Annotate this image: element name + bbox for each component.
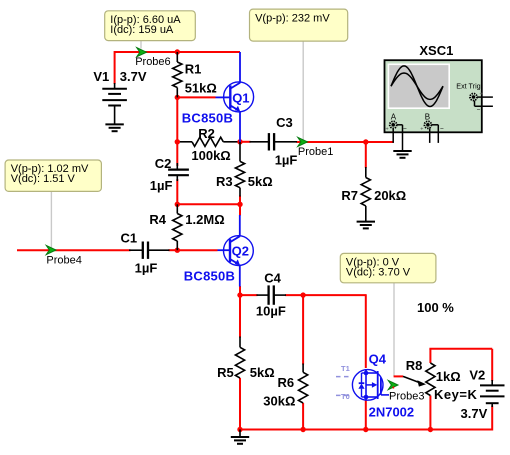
svg-text:C3: C3: [276, 115, 293, 130]
svg-text:R4: R4: [149, 212, 166, 227]
wire R5 bottom: [239, 378, 241, 430]
wire C1 to base node Q2: [168, 249, 177, 251]
svg-text:BC850B: BC850B: [184, 269, 235, 284]
wire R1 bottom to base node: [176, 97, 178, 166]
svg-text:I(dc): 159 uA: I(dc): 159 uA: [110, 24, 174, 36]
svg-text:2N7002: 2N7002: [369, 405, 415, 420]
resistor R6: [299, 364, 308, 404]
svg-text:30kΩ: 30kΩ: [263, 394, 295, 409]
junction node at 177.3,204.3: [175, 202, 180, 207]
ground below R7: [357, 222, 375, 229]
svg-text:C2: C2: [155, 156, 172, 171]
svg-text:1µF: 1µF: [135, 260, 158, 275]
svg-text:R7: R7: [341, 188, 358, 203]
svg-text:100 %: 100 %: [417, 300, 454, 315]
wire C4 left: [240, 294, 258, 296]
wire output C3 to scope: [297, 141, 394, 143]
probe Probe1 arrow: [298, 137, 308, 146]
svg-text:R1: R1: [185, 62, 202, 77]
probe connector line to Probe3 box: [393, 283, 395, 377]
junction node at 365.8,429.5: [363, 427, 368, 432]
wire C4 right to node: [285, 294, 303, 296]
svg-text:Ext Trig: Ext Trig: [456, 81, 480, 90]
wire Q4 gate horizontal red: [394, 375, 403, 377]
battery V2: [480, 380, 505, 407]
wire R6 top: [302, 295, 304, 364]
svg-text:T1: T1: [341, 364, 350, 373]
svg-text:V(p-p): 232 mV: V(p-p): 232 mV: [255, 12, 330, 24]
wire R6 bottom: [302, 403, 304, 430]
junction node at 177.3,250.2: [175, 248, 180, 253]
svg-text:+: +: [386, 127, 389, 133]
svg-text:Q4: Q4: [369, 352, 387, 367]
wire R2 row right lead: [223, 141, 240, 143]
wire bottom rail: [240, 429, 492, 431]
resistor R4: [173, 204, 182, 250]
svg-text:Probe3: Probe3: [389, 391, 424, 403]
svg-text:R8: R8: [406, 358, 423, 373]
terminal B of scope: [420, 113, 444, 143]
svg-text:BC850B: BC850B: [182, 110, 233, 125]
svg-text:B: B: [425, 113, 430, 122]
svg-text:Probe6: Probe6: [135, 56, 170, 68]
svg-text:3.7V: 3.7V: [461, 406, 488, 421]
svg-text:10µF: 10µF: [256, 303, 286, 318]
wire V1 positive lead: [114, 51, 116, 84]
wire top rail V1 to Q1 collector: [115, 51, 240, 53]
Ext Trig terminal: [470, 92, 493, 114]
wire Q2 base red: [177, 249, 217, 251]
resistor R1: [173, 52, 182, 97]
capacitor C3: [250, 133, 298, 150]
svg-text:20kΩ: 20kΩ: [374, 188, 406, 203]
svg-text:5kΩ: 5kΩ: [250, 365, 275, 380]
wire R3 bottom: [239, 196, 241, 205]
wire Q1 base: [177, 96, 215, 98]
wire Q2 emitter red: [239, 286, 241, 295]
junction node at 177.3,141.8: [175, 139, 180, 144]
probe Probe6 arrow: [137, 48, 147, 57]
ground below bottom rail: [231, 430, 249, 444]
wire node to Q4 drain corner: [303, 294, 366, 296]
svg-text:1.2MΩ: 1.2MΩ: [185, 212, 224, 227]
svg-text:Q1: Q1: [232, 91, 249, 106]
wire C3 left red: [240, 141, 251, 143]
probe connector line to Probe4 box: [50, 191, 52, 249]
svg-text:−: −: [440, 126, 444, 133]
wire R8 bottom: [429, 396, 431, 430]
transistor Q4 N-MOSFET: [352, 369, 389, 401]
resistor R7: [361, 167, 370, 222]
transistor Q2 BJT NPN: [218, 215, 254, 287]
svg-text:3.7V: 3.7V: [120, 69, 147, 84]
wire R2 row left lead: [177, 141, 192, 143]
svg-text:C1: C1: [121, 231, 138, 246]
probe connector line to Probe6 box: [140, 41, 142, 49]
junction node at 303.1,295.1: [300, 292, 305, 297]
svg-text:V(dc): 1.51 V: V(dc): 1.51 V: [11, 173, 76, 185]
svg-text:V2: V2: [469, 368, 485, 383]
svg-text:5kΩ: 5kΩ: [248, 174, 273, 189]
junction node at 177.3,52: [175, 49, 180, 54]
resistor R2: [192, 137, 223, 146]
ground below V1: [105, 124, 123, 131]
transistor Q1 BJT NPN: [216, 52, 254, 142]
svg-text:R5: R5: [217, 365, 234, 380]
wire input to C1: [17, 249, 131, 251]
probe Probe3 arrow: [388, 380, 398, 389]
junction node at 177.3,97.4: [175, 95, 180, 100]
svg-text:100kΩ: 100kΩ: [191, 148, 230, 163]
wire Q4 source to rail: [365, 400, 367, 430]
svg-text:XSC1: XSC1: [419, 43, 453, 58]
svg-text:+: +: [420, 127, 423, 133]
wire Q2 collector red: [239, 204, 241, 215]
terminal A of scope: [386, 113, 408, 151]
junction node at 240,429.5: [237, 427, 242, 432]
measurement box for Probe1: [250, 9, 348, 41]
svg-text:1µF: 1µF: [275, 153, 298, 168]
ground below scope terminal A: [393, 151, 411, 158]
wire R5 top: [239, 295, 241, 337]
svg-text:Probe1: Probe1: [298, 146, 333, 158]
junction node at 240,204.3: [237, 202, 242, 207]
svg-text:Probe4: Probe4: [46, 255, 81, 267]
capacitor C1: [129, 242, 170, 259]
svg-text:C4: C4: [264, 270, 281, 285]
svg-text:R2: R2: [198, 126, 215, 141]
probe Probe4 arrow: [46, 245, 56, 254]
svg-text:T0: T0: [341, 392, 350, 401]
wire mid rail: [177, 203, 240, 205]
junction node at 430.4,429.5: [428, 427, 433, 432]
measurement box for Probe6: [105, 11, 196, 41]
oscilloscope XSC1: [385, 60, 482, 132]
probe connector line to Probe1 box: [302, 41, 304, 140]
svg-text:A: A: [391, 113, 397, 122]
potentiometer R8: [403, 363, 435, 396]
wire R8 top vertical: [429, 349, 431, 363]
svg-text:R3: R3: [216, 174, 233, 189]
svg-text:V1: V1: [93, 69, 109, 84]
measurement box for Probe3: [340, 253, 436, 282]
resistor R3: [235, 142, 244, 197]
svg-text:Q2: Q2: [232, 244, 249, 259]
resistor R5: [235, 337, 244, 379]
svg-text:R6: R6: [278, 375, 295, 390]
svg-text:−: −: [403, 126, 407, 133]
junction node at 240,141.8: [237, 139, 242, 144]
wire Q4 drain vertical: [365, 294, 367, 368]
svg-text:1kΩ: 1kΩ: [436, 369, 461, 384]
svg-text:V(dc): 3.70 V: V(dc): 3.70 V: [346, 267, 411, 279]
wire R8 to V2 top: [429, 348, 492, 350]
junction node at 240,295.1: [237, 292, 242, 297]
wire R7 top: [365, 142, 367, 168]
junction node at 365.8,142: [363, 139, 368, 144]
svg-text:51kΩ: 51kΩ: [185, 80, 217, 95]
svg-text:−: −: [477, 107, 481, 114]
svg-text:Key=K: Key=K: [434, 387, 477, 402]
svg-text:1µF: 1µF: [150, 178, 173, 193]
wire V2 top vertical: [491, 349, 493, 381]
junction node at 303.1,429.5: [300, 427, 305, 432]
capacitor C4: [257, 285, 287, 304]
battery V1: [102, 83, 127, 124]
capacitor C2: [168, 163, 189, 181]
wire C2 bottom to mid rail: [176, 179, 178, 204]
measurement box for Probe4: [5, 160, 101, 191]
wire V2 bottom vertical: [491, 406, 493, 431]
